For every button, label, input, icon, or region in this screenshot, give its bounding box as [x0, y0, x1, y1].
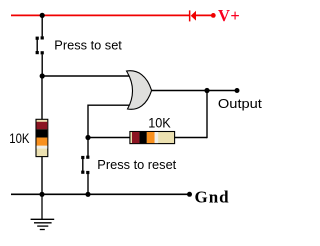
ground symbol — [31, 194, 55, 229]
wire V+ rail (red) — [11, 14, 189, 16]
wire reset switch top lead — [87, 138, 89, 157]
switch S1 press to set — [36, 36, 44, 54]
svg-text:Output: Output — [218, 96, 262, 111]
wire from diode to V+ dot (red) — [196, 14, 213, 16]
svg-text:10K: 10K — [148, 116, 171, 132]
svg-text:Press to set: Press to set — [54, 37, 122, 52]
node junction on V+ rail — [40, 13, 45, 18]
diode D1 (red, cathode bar + triangle) — [189, 10, 196, 21]
wire from set switch down to node A — [41, 54, 43, 76]
switch S2 press to reset — [81, 156, 89, 174]
wire gate output — [152, 90, 237, 92]
resistor R1 10K vertical — [36, 119, 48, 156]
svg-text:Gnd: Gnd — [195, 188, 230, 207]
wire from node A down to resistor R1 — [41, 76, 43, 120]
wire node B to resistor R2 — [88, 137, 130, 139]
wire R2 right lead to corner — [175, 137, 207, 139]
wire gate bottom input horizontal — [88, 104, 133, 106]
wire gate top input — [42, 75, 133, 77]
wire from rail junction down to set switch — [41, 15, 43, 36]
resistor R2 10K horizontal — [130, 132, 175, 144]
node junction gnd rail / R1 — [39, 192, 44, 197]
node output junction — [204, 88, 209, 93]
node junction gnd rail / reset switch — [85, 192, 90, 197]
wire corner up to output junction — [206, 91, 208, 139]
node Gnd terminal dot — [187, 192, 192, 197]
node V+ terminal dot (red) — [211, 13, 216, 18]
wire ground rail — [11, 193, 189, 195]
svg-text:Press to reset: Press to reset — [97, 157, 176, 172]
node A junction (switch/resistor/gate input) — [40, 73, 45, 78]
wire from R1 down to ground rail — [41, 157, 43, 195]
node output end dot — [235, 88, 240, 93]
node B junction (gate input/R2/reset switch) — [85, 135, 90, 140]
or-gate U1 — [127, 71, 152, 110]
wire reset switch bottom lead to ground rail — [87, 174, 89, 194]
wire gate bottom input vertical down to node B — [87, 105, 89, 138]
svg-text:V+: V+ — [218, 6, 240, 25]
svg-text:10K: 10K — [9, 131, 30, 147]
